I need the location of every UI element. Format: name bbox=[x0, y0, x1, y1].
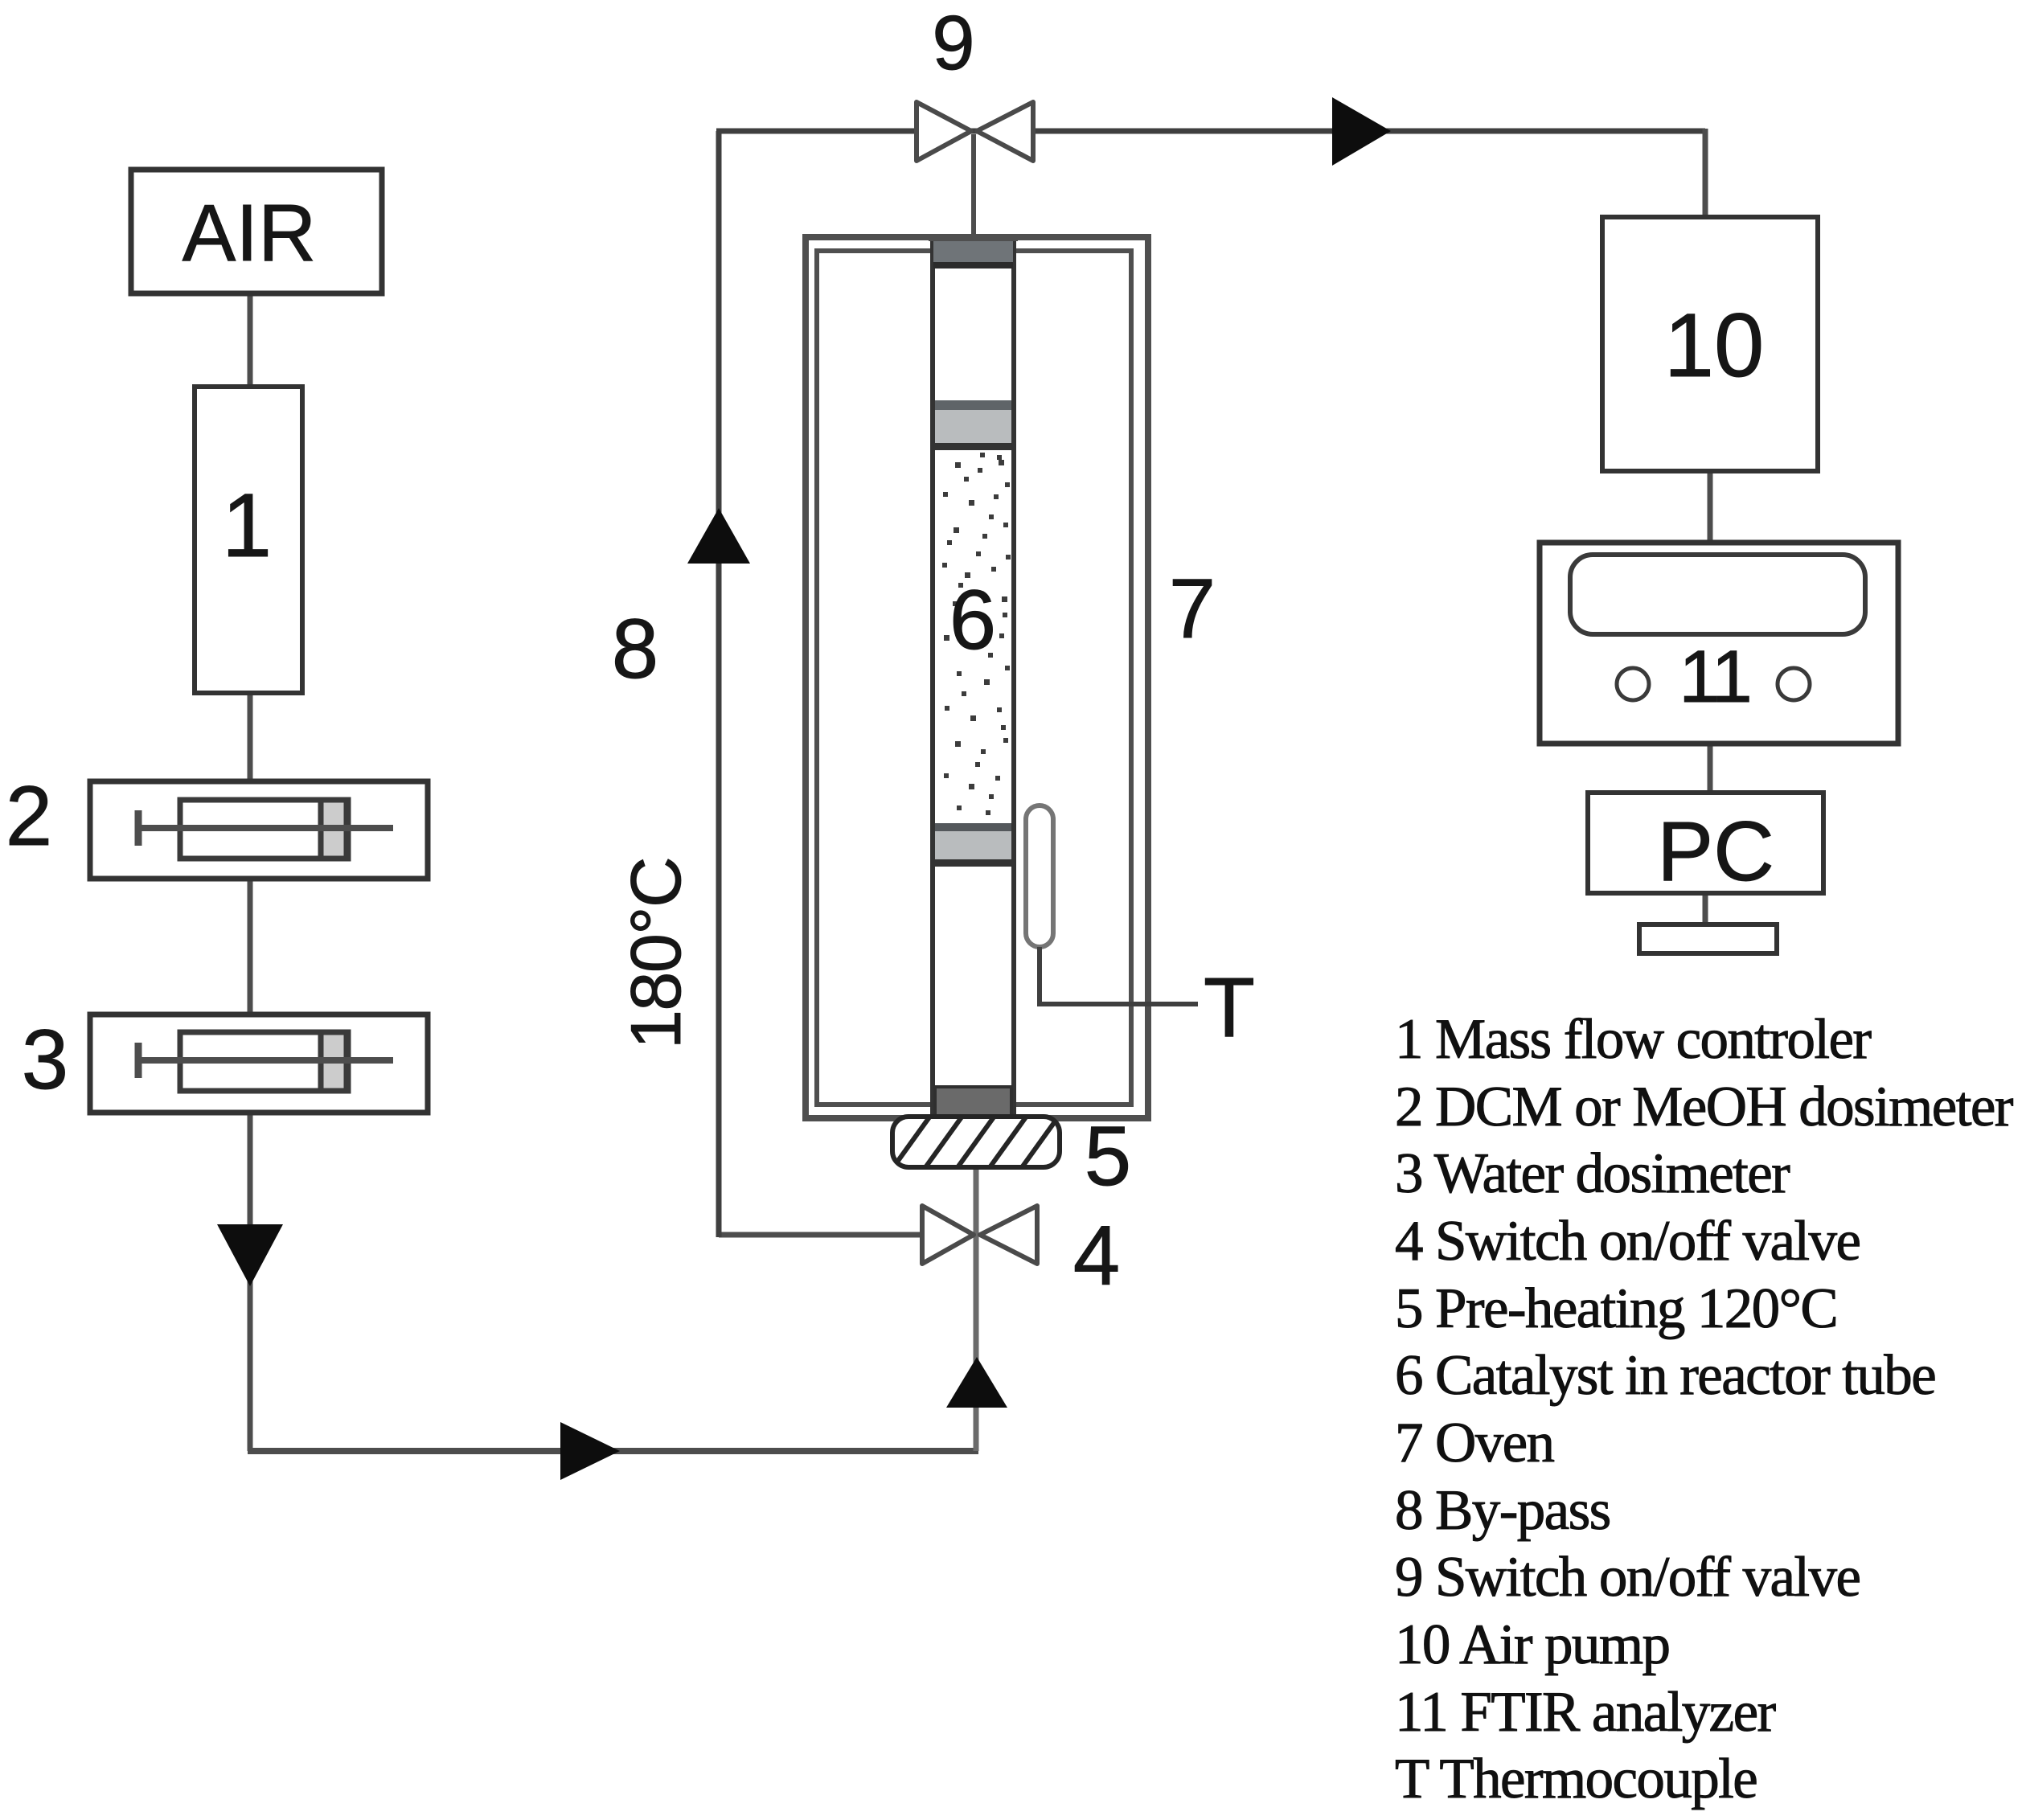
tube upper wool band bbox=[935, 400, 1011, 450]
legend line 1 bbox=[1395, 1008, 1872, 1071]
legend line 3 bbox=[1395, 1142, 1790, 1205]
wire box 10 to box 11 bbox=[1708, 471, 1713, 544]
PC box bbox=[1588, 793, 1823, 893]
legend line 7 bbox=[1395, 1412, 1555, 1474]
legend line 2 bbox=[1395, 1076, 2014, 1138]
wire box 3 down to bottom corner bbox=[248, 1113, 253, 1451]
wire box 1 to box 2 bbox=[248, 693, 253, 781]
arrow right on bottom line bbox=[560, 1422, 620, 1480]
box 11 FTIR analyzer bbox=[1540, 543, 1898, 744]
legend line 8 bbox=[1395, 1479, 1610, 1542]
wire bypass bottom horizontal to valve 4 bbox=[719, 1232, 949, 1238]
thermocouple probe bbox=[1026, 805, 1053, 947]
svg-text:5: 5 bbox=[1085, 1109, 1131, 1203]
FTIR display window bbox=[1570, 555, 1865, 634]
svg-text:8 By-pass: 8 By-pass bbox=[1395, 1479, 1610, 1542]
wire PC to stand bbox=[1703, 893, 1708, 928]
pre-heater 5 hatched box bbox=[888, 1109, 1096, 1175]
AIR box bbox=[131, 170, 382, 293]
arrow right on top line bbox=[1332, 97, 1391, 166]
svg-text:1: 1 bbox=[222, 475, 272, 576]
label 2 bbox=[6, 769, 52, 863]
syringe in box 3 bbox=[138, 1032, 393, 1091]
svg-text:7: 7 bbox=[1169, 562, 1216, 656]
legend line 6 bbox=[1395, 1344, 1935, 1407]
svg-text:9 Switch on/off valve: 9 Switch on/off valve bbox=[1395, 1546, 1860, 1609]
label 3 bbox=[22, 1013, 68, 1107]
wire by-pass vertical line 8 bbox=[716, 131, 722, 1237]
wire top horizontal through valve 9 bbox=[716, 129, 1705, 134]
label T bbox=[1204, 961, 1255, 1055]
reactor tube right wall bbox=[1011, 238, 1016, 1117]
box 1 mass flow controller bbox=[195, 387, 302, 693]
svg-text:3: 3 bbox=[22, 1013, 68, 1107]
svg-text:3 Water dosimeter: 3 Water dosimeter bbox=[1395, 1142, 1790, 1205]
svg-text:11: 11 bbox=[1679, 636, 1749, 718]
label 5 bbox=[1085, 1109, 1131, 1203]
wire right vertical up to valve 4 and preheater bbox=[974, 1166, 979, 1451]
svg-text:180°C: 180°C bbox=[616, 858, 695, 1049]
svg-text:4 Switch on/off valve: 4 Switch on/off valve bbox=[1395, 1210, 1860, 1273]
svg-text:AIR: AIR bbox=[183, 188, 317, 278]
syringe in box 2 bbox=[138, 800, 393, 859]
svg-text:10: 10 bbox=[1664, 295, 1765, 396]
FTIR left knob bbox=[1617, 668, 1649, 700]
svg-text:6: 6 bbox=[949, 573, 996, 667]
svg-text:8: 8 bbox=[612, 602, 658, 696]
label 9 bbox=[932, 0, 974, 86]
box 10 air pump bbox=[1602, 217, 1818, 471]
svg-text:T Thermocouple: T Thermocouple bbox=[1395, 1748, 1757, 1810]
label 1 bbox=[222, 475, 272, 576]
reactor tube interior bbox=[933, 238, 1014, 1117]
wire box 2 to box 3 bbox=[248, 879, 253, 1015]
label 180C rotated bbox=[616, 858, 695, 1049]
arrow down on left line bbox=[217, 1224, 283, 1286]
legend line 4 bbox=[1395, 1210, 1860, 1273]
wire bottom horizontal bbox=[248, 1448, 978, 1454]
label 7 bbox=[1169, 562, 1216, 656]
thermocouple wire to T bbox=[1040, 947, 1198, 1004]
svg-text:1 Mass flow controler: 1 Mass flow controler bbox=[1395, 1008, 1872, 1071]
svg-text:PC: PC bbox=[1657, 805, 1774, 899]
legend line T bbox=[1395, 1748, 1757, 1810]
AIR label bbox=[183, 188, 317, 278]
tube bottom cap bbox=[935, 1087, 1011, 1117]
wire valve 9 to reactor tube bbox=[971, 134, 976, 241]
svg-text:2 DCM or MeOH dosimeter: 2 DCM or MeOH dosimeter bbox=[1395, 1076, 2014, 1138]
catalyst dots region 6 bbox=[942, 453, 1011, 815]
wire down to box 10 bbox=[1703, 129, 1708, 219]
reactor tube left wall bbox=[930, 238, 935, 1117]
tube lower wool band bbox=[935, 823, 1011, 867]
tube top cap bbox=[929, 235, 1018, 268]
box 2 DCM/MeOH dosimeter bbox=[90, 781, 428, 879]
arrow up on by-pass line bbox=[687, 508, 750, 564]
wire AIR to box 1 bbox=[248, 293, 253, 387]
box 3 water dosimeter bbox=[90, 1015, 428, 1113]
svg-text:10 Air pump: 10 Air pump bbox=[1395, 1613, 1669, 1676]
label 8 bbox=[612, 602, 658, 696]
label 10 bbox=[1664, 295, 1765, 396]
oven 7 outer box bbox=[806, 237, 1148, 1118]
svg-text:11 FTIR analyzer: 11 FTIR analyzer bbox=[1395, 1681, 1777, 1744]
arrow up on right vertical line bbox=[946, 1357, 1007, 1408]
svg-text:2: 2 bbox=[6, 769, 52, 863]
label 4 bbox=[1073, 1209, 1120, 1303]
label 11 bbox=[1679, 636, 1749, 718]
oven 7 inner box bbox=[817, 251, 1131, 1105]
legend line 9 bbox=[1395, 1546, 1860, 1609]
legend line 5 bbox=[1395, 1277, 1837, 1340]
legend line 10 bbox=[1395, 1613, 1669, 1676]
FTIR right knob bbox=[1778, 668, 1810, 700]
svg-text:9: 9 bbox=[932, 0, 974, 86]
valve 9 bbox=[917, 102, 1033, 161]
svg-text:6 Catalyst in reactor tube: 6 Catalyst in reactor tube bbox=[1395, 1344, 1935, 1407]
svg-text:T: T bbox=[1204, 961, 1255, 1055]
svg-text:5 Pre-heating 120°C: 5 Pre-heating 120°C bbox=[1395, 1277, 1837, 1340]
valve 4 bbox=[922, 1206, 1037, 1264]
svg-text:7 Oven: 7 Oven bbox=[1395, 1412, 1555, 1474]
PC stand bbox=[1639, 924, 1777, 953]
label 6 bbox=[949, 573, 996, 667]
svg-text:4: 4 bbox=[1073, 1209, 1120, 1303]
label PC bbox=[1657, 805, 1774, 899]
wire box 11 to PC bbox=[1708, 742, 1713, 794]
legend line 11 bbox=[1395, 1681, 1777, 1744]
